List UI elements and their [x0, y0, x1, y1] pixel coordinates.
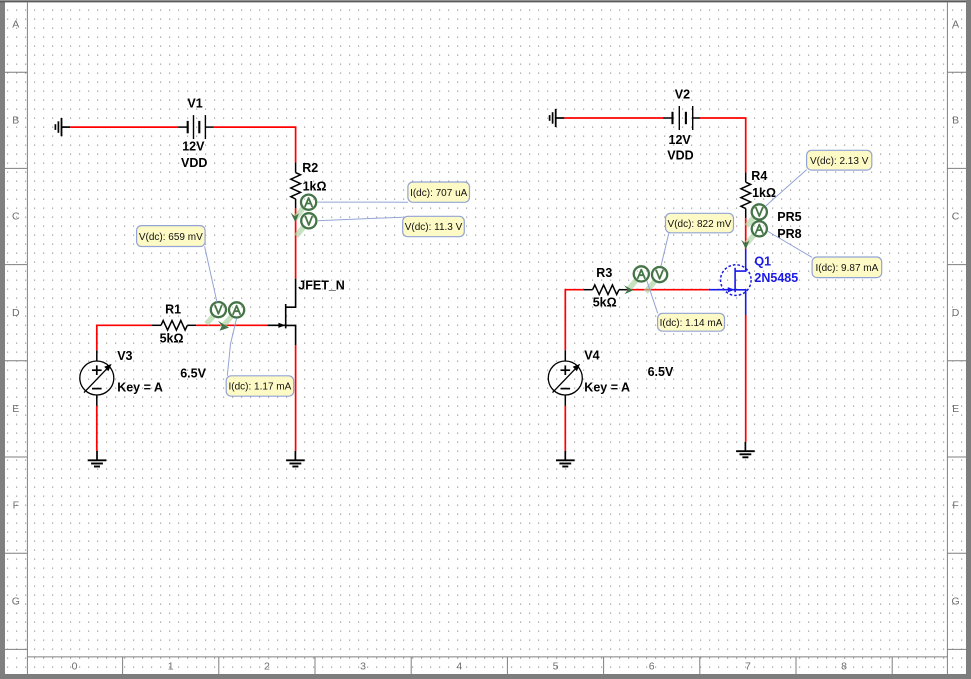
svg-text:VDD: VDD [667, 149, 693, 163]
callout leader I(dc):9.87mA [767, 231, 812, 257]
svg-text:C: C [12, 211, 20, 223]
svg-text:1: 1 [168, 661, 174, 673]
V3 arrowhead [104, 364, 111, 371]
svg-text:V(dc): 659 mV: V(dc): 659 mV [139, 232, 203, 243]
resistor R2 [291, 163, 301, 209]
svg-text:E: E [952, 403, 959, 415]
probe arrowhead (R3 cluster) [624, 285, 633, 294]
svg-text:JFET_N: JFET_N [298, 279, 345, 293]
probe arrowhead PR8 [741, 240, 749, 250]
svg-text:12V: 12V [669, 133, 692, 147]
probe arrow light band (V at R2) [296, 226, 304, 236]
wire R1 to JFET gate [196, 324, 267, 326]
svg-text:V(dc): 11.3 V: V(dc): 11.3 V [405, 222, 463, 233]
callout leader V(dc):2.13V [765, 170, 806, 207]
probe arrow light band (V at R3) [646, 281, 656, 292]
svg-text:R3: R3 [596, 266, 612, 280]
probe A circle PR8 [752, 221, 767, 236]
probe arrow light band (A PR8) [747, 234, 755, 243]
svg-text:6.5V: 6.5V [180, 367, 206, 381]
wire V3 to ground [96, 406, 98, 451]
callout box V(dc): 659 mV [137, 226, 206, 247]
wire V3 top corner to R1 [97, 325, 152, 350]
ground GND5 (Q1 source) [736, 442, 755, 458]
svg-text:6.5V: 6.5V [648, 365, 674, 379]
svg-text:V(dc): 822 mV: V(dc): 822 mV [668, 219, 732, 230]
resistor R1 [152, 321, 197, 331]
ground GND4 (left of V2) [550, 109, 565, 127]
svg-text:A: A [12, 18, 19, 30]
source V4 [548, 350, 582, 406]
probe arrow light band (V at R1) [206, 316, 213, 324]
wire R3 to Q1 gate [627, 289, 709, 291]
wire V1 to R2 corner [214, 127, 296, 162]
wire R2 to JFET drain [295, 208, 297, 278]
svg-text:8: 8 [841, 661, 847, 673]
svg-text:E: E [12, 403, 19, 415]
svg-text:A: A [952, 18, 959, 30]
transistor JFET_N [267, 279, 295, 345]
svg-text:5: 5 [553, 661, 559, 673]
callout box V(dc): 822 mV [666, 213, 734, 233]
wire GND4 to V2 [564, 117, 663, 119]
probe V circle (822mV) [652, 267, 667, 282]
callout box I(dc): 707 uA [408, 182, 470, 202]
svg-text:R4: R4 [751, 169, 767, 183]
svg-text:V3: V3 [117, 349, 132, 363]
wire GND1 to V1 [70, 126, 178, 128]
transistor Q1 2N5485 [720, 249, 746, 315]
svg-text:D: D [952, 307, 960, 319]
svg-text:D: D [12, 307, 20, 319]
callout box I(dc): 1.17 mA [226, 376, 294, 396]
svg-text:3: 3 [360, 661, 366, 673]
wire Q1 source to ground [745, 315, 747, 442]
svg-text:F: F [13, 499, 19, 511]
resistor R3 [584, 285, 627, 295]
svg-text:B: B [952, 115, 959, 127]
V4 arrowhead [573, 364, 580, 371]
callout leader I(dc):707uA [317, 201, 408, 203]
svg-text:PR5: PR5 [777, 210, 801, 224]
probe arrow light band (V PR5) [747, 217, 755, 226]
svg-text:4: 4 [456, 661, 462, 673]
probe A circle (1.14mA) [634, 266, 649, 281]
Q1 gate lead (blue) [709, 289, 720, 291]
probe arrowhead (A at R2) [291, 213, 299, 223]
wire V4 to ground [564, 406, 566, 451]
svg-text:R2: R2 [302, 161, 318, 175]
callout leader I(dc):1.14mA [647, 281, 658, 313]
callout box V(dc): 11.3 V [403, 216, 465, 236]
callout box I(dc): 9.87 mA [812, 257, 882, 278]
svg-text:1kΩ: 1kΩ [303, 179, 327, 193]
svg-text:7: 7 [745, 661, 751, 673]
resistor R4 [741, 173, 751, 219]
svg-text:Key = A: Key = A [117, 380, 163, 394]
probe arrow light band (A at R3) [628, 280, 637, 290]
probe arrowhead (R1 cluster) [218, 321, 229, 331]
callout box V(dc): 2.13 V [807, 150, 872, 170]
svg-text:Key = A: Key = A [584, 381, 630, 395]
svg-text:C: C [952, 211, 960, 223]
svg-text:G: G [12, 596, 20, 608]
callout leader V(dc):659mV [205, 246, 217, 302]
wire V4 top corner to R3 [565, 290, 583, 351]
svg-text:I(dc): 1.17 mA: I(dc): 1.17 mA [228, 382, 291, 393]
battery V1 [178, 115, 213, 139]
callout leader I(dc):1.17mA [227, 318, 236, 375]
wire JFET source to ground [295, 345, 297, 451]
svg-text:F: F [952, 499, 958, 511]
svg-text:I(dc): 1.14 mA: I(dc): 1.14 mA [660, 318, 723, 329]
probe arrow light band (A at R1) [222, 316, 232, 327]
callout leader V(dc):11.3V [317, 217, 403, 221]
probe V circle PR5 [752, 204, 767, 219]
probe A circle (1.17mA) [229, 302, 244, 317]
probe V circle (11.3V) [301, 213, 316, 228]
probe A circle (707uA) [301, 195, 316, 210]
source V3 [80, 350, 114, 406]
probe V circle (659mV) [211, 302, 226, 317]
wire V2 to R4 corner [700, 118, 746, 173]
svg-text:1kΩ: 1kΩ [752, 186, 776, 200]
wire R4 to Q1 drain [745, 218, 747, 249]
svg-text:B: B [12, 115, 19, 127]
frame zone numbers [72, 661, 848, 673]
svg-text:V2: V2 [675, 88, 690, 102]
svg-text:6: 6 [649, 661, 655, 673]
svg-text:2N5485: 2N5485 [754, 271, 798, 285]
JFET_N gate arrow [278, 323, 285, 328]
svg-text:R1: R1 [165, 302, 181, 316]
ground GND6 (V4) [556, 451, 575, 467]
svg-text:2: 2 [264, 661, 270, 673]
battery V2 [663, 106, 700, 130]
Q1 gate arrow [728, 287, 735, 292]
svg-text:12V: 12V [182, 140, 205, 154]
svg-text:V4: V4 [584, 349, 599, 363]
svg-text:VDD: VDD [181, 156, 207, 170]
callout leader V(dc):822mV [661, 233, 669, 266]
ground GND1 (left of V1) [55, 118, 70, 136]
svg-text:5kΩ: 5kΩ [160, 331, 184, 345]
svg-text:I(dc): 707 uA: I(dc): 707 uA [410, 188, 468, 199]
svg-text:V1: V1 [187, 97, 202, 111]
svg-text:V(dc): 2.13 V: V(dc): 2.13 V [810, 156, 869, 167]
ground GND2 (JFET source) [286, 451, 305, 467]
svg-text:I(dc): 9.87 mA: I(dc): 9.87 mA [815, 263, 878, 274]
svg-text:Q1: Q1 [754, 255, 771, 269]
svg-text:5kΩ: 5kΩ [593, 296, 617, 310]
svg-text:0: 0 [72, 661, 78, 673]
callout box I(dc): 1.14 mA [658, 313, 725, 331]
ground GND3 (V3) [88, 451, 107, 467]
probe arrow light band (A at R2) [295, 207, 304, 219]
svg-text:G: G [952, 596, 960, 608]
Q1 dashed circle [721, 265, 752, 296]
